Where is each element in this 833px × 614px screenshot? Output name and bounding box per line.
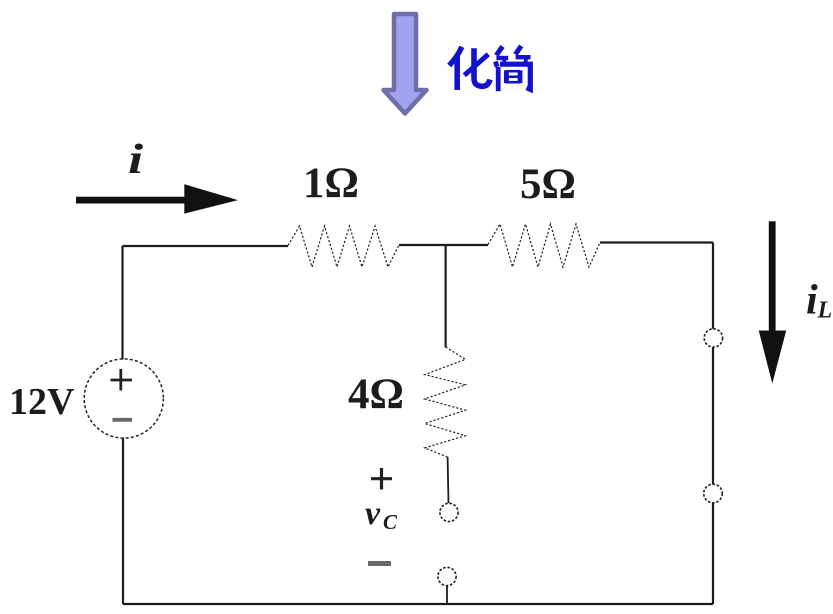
- svg-text:12V: 12V: [9, 381, 75, 423]
- wire middle branch to terminal: [447, 457, 450, 503]
- svg-text:1Ω: 1Ω: [303, 160, 359, 207]
- terminal node b: [438, 567, 456, 585]
- svg-text:v: v: [365, 495, 381, 532]
- label 化简: [449, 46, 530, 91]
- wire terminal b to bottom: [446, 586, 448, 604]
- voltage source V1 12V: [84, 359, 163, 438]
- terminal node d: [704, 484, 723, 503]
- source minus: [113, 418, 133, 422]
- wire right upper: [712, 243, 714, 330]
- wire top-left: [123, 245, 289, 247]
- wire right lower: [712, 503, 714, 604]
- label vC minus: [368, 561, 391, 566]
- source plus: [111, 369, 133, 391]
- label vC plus: [371, 468, 392, 490]
- resistor R 1ohm: [288, 226, 399, 267]
- block arrow (simplify): [384, 14, 427, 114]
- svg-text:i: i: [806, 278, 818, 324]
- svg-text:4Ω: 4Ω: [348, 371, 404, 418]
- terminal node c: [704, 329, 722, 347]
- svg-text:C: C: [383, 510, 398, 534]
- svg-text:L: L: [817, 298, 833, 324]
- current arrow i: [76, 184, 238, 213]
- wire bottom: [123, 603, 713, 605]
- wire left lower: [122, 438, 124, 605]
- svg-text:i: i: [128, 136, 144, 183]
- terminal node a: [440, 503, 458, 521]
- wire top-middle: [399, 244, 488, 246]
- resistor R 5ohm: [488, 224, 600, 267]
- wire left upper: [121, 246, 123, 360]
- wire right middle: [712, 347, 714, 484]
- wire top-right: [600, 241, 713, 243]
- current arrow iL: [759, 221, 787, 383]
- svg-text:5Ω: 5Ω: [520, 161, 576, 208]
- wire middle branch upper: [445, 245, 447, 348]
- resistor R 4ohm: [425, 347, 466, 457]
